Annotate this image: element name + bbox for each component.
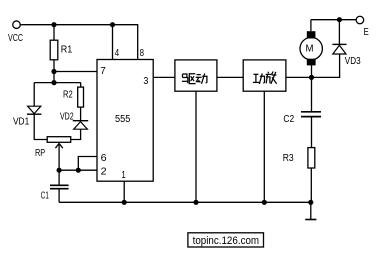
svg-text:topinc.126.com: topinc.126.com — [193, 235, 260, 247]
svg-text:R1: R1 — [61, 45, 73, 56]
svg-text:VD2: VD2 — [60, 112, 74, 123]
svg-text:6: 6 — [101, 153, 107, 164]
svg-text:RP: RP — [35, 148, 45, 159]
svg-text:M: M — [306, 43, 314, 55]
svg-text:8: 8 — [140, 48, 145, 59]
svg-text:1: 1 — [121, 170, 126, 181]
svg-text:555: 555 — [115, 114, 131, 125]
svg-text:4: 4 — [115, 48, 120, 59]
svg-text:2: 2 — [101, 167, 107, 178]
svg-text:7: 7 — [100, 66, 106, 77]
svg-text:VD1: VD1 — [13, 117, 30, 128]
svg-text:C1: C1 — [41, 190, 49, 201]
svg-text:E: E — [364, 27, 370, 38]
svg-text:R3: R3 — [283, 153, 294, 164]
svg-text:3: 3 — [143, 76, 148, 87]
svg-text:VCC: VCC — [8, 33, 23, 44]
svg-text:R2: R2 — [63, 90, 73, 101]
svg-text:C2: C2 — [283, 114, 294, 125]
svg-text:VD3: VD3 — [345, 56, 361, 67]
